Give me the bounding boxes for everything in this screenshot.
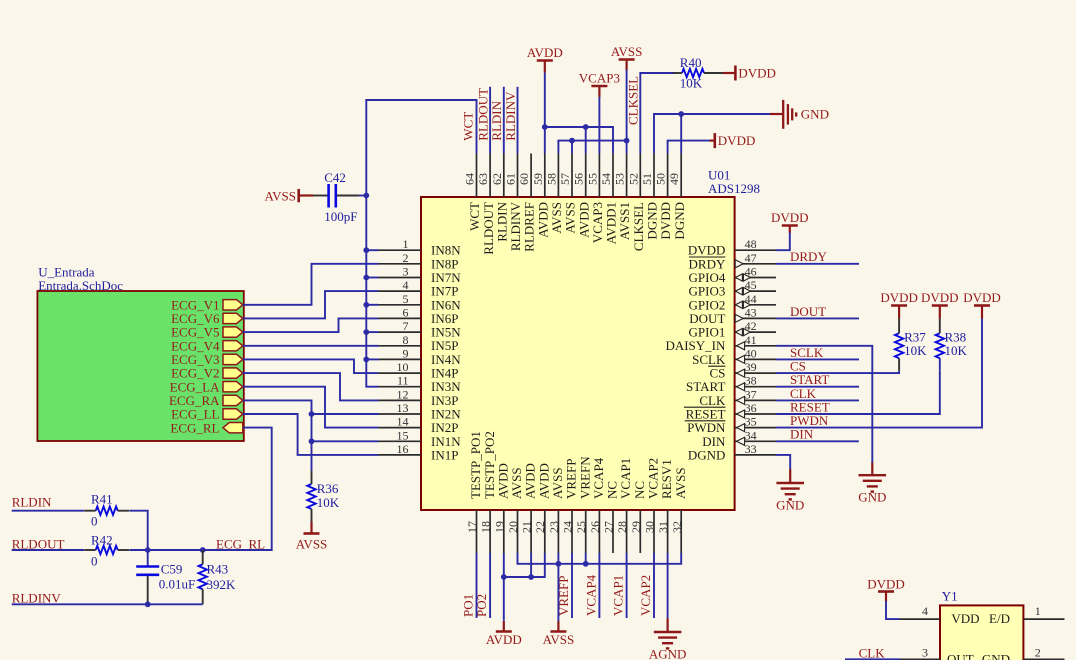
pin 38 (START) right stub — [735, 386, 776, 388]
power AVSS at C42 — [297, 189, 300, 202]
wire ECG_V5 to IN6P — [243, 318, 379, 332]
wire DAISY_IN to GND — [776, 346, 872, 463]
svg-text:GND: GND — [776, 498, 804, 513]
pin 63 (RLDOUT) top stub — [489, 154, 491, 198]
pin 37 input arrow — [737, 396, 745, 404]
resistor R36 — [307, 484, 315, 509]
capacitor C59 — [147, 550, 149, 566]
wire ECG_RA branch to IN1N — [312, 440, 379, 442]
power DVDD above PWDN drop — [974, 304, 990, 307]
svg-text:0: 0 — [91, 554, 98, 569]
svg-text:40: 40 — [745, 346, 757, 360]
sheet entry port ECG_V1 — [223, 300, 243, 310]
wire AVDD net pins 59/56/54 — [544, 73, 546, 154]
svg-text:DVDD: DVDD — [880, 290, 918, 305]
pin 57 (AVSS) top stub — [571, 154, 573, 198]
svg-text:RLDINV: RLDINV — [12, 590, 62, 605]
pin 35 input arrow — [737, 424, 745, 432]
svg-text:AVSS: AVSS — [611, 44, 643, 59]
svg-text:DIN: DIN — [790, 427, 814, 442]
wire WCT branch to pin 3 IN7N — [366, 277, 378, 279]
ground AGND — [666, 619, 668, 632]
pin 39 input arrow — [737, 369, 745, 377]
power VCAP3 — [591, 85, 607, 88]
svg-text:Entrada.SchDoc: Entrada.SchDoc — [38, 278, 123, 293]
wire ECG_LA to IN2P — [243, 387, 379, 428]
pin 39 (CS) right stub — [735, 372, 776, 374]
wire ECG_RA down to R36 — [243, 400, 312, 470]
pin 61 (RLDINV) top stub — [517, 154, 519, 198]
svg-text:36: 36 — [745, 401, 757, 415]
svg-text:47: 47 — [745, 251, 757, 265]
wire VCAP3 pin 55 — [598, 97, 600, 154]
wire PO1 pin 17 — [476, 553, 478, 618]
svg-text:DRDY: DRDY — [790, 249, 827, 264]
wire R41 to node — [130, 511, 148, 550]
svg-text:R42: R42 — [91, 532, 113, 547]
wire RLDINV — [12, 603, 203, 605]
svg-text:23: 23 — [547, 521, 561, 533]
pin 62 (RLDIN) top stub — [503, 154, 505, 198]
pin 43 output arrow — [735, 314, 743, 322]
pin 1 (E/D) stub — [1023, 618, 1064, 620]
pin 17 (TESTP_PO1) bottom stub — [476, 510, 478, 553]
pin 3 (OUT) stub — [900, 658, 940, 660]
wire PWDN to DVDD — [776, 318, 982, 427]
wire ECG_V6 to IN7P — [243, 291, 379, 318]
wire ECG_RA branch to IN2N — [312, 413, 379, 415]
pin 42 bidirectional arrows — [735, 329, 742, 336]
sheet entry port ECG_V4 — [223, 341, 243, 351]
pin 26 (VCAP4) bottom stub — [598, 510, 600, 553]
svg-text:5: 5 — [403, 292, 409, 306]
pin 5 (IN6N) left stub — [379, 304, 422, 306]
ground GND rotated right — [770, 113, 783, 115]
svg-text:55: 55 — [585, 173, 599, 185]
wire DVDD pin 50 — [668, 141, 710, 154]
svg-text:C42: C42 — [324, 170, 346, 185]
svg-text:6: 6 — [403, 305, 409, 319]
resistor R42 — [96, 546, 118, 554]
svg-text:27: 27 — [602, 521, 616, 533]
svg-text:10: 10 — [397, 360, 409, 374]
pin 31 (RESV1) bottom stub — [667, 510, 669, 553]
pin 34 (DIN) right stub — [735, 440, 776, 442]
pin 2 (IN8P) left stub — [379, 263, 422, 265]
power DVDD above R38 — [932, 304, 948, 307]
svg-text:21: 21 — [520, 521, 534, 533]
wire CS to R37 — [776, 371, 899, 373]
svg-text:57: 57 — [558, 173, 572, 185]
svg-text:24: 24 — [561, 521, 575, 533]
node ECG_RA junction pin 15 — [309, 438, 315, 444]
pin 35 (PWDN) right stub — [735, 427, 776, 429]
svg-text:56: 56 — [572, 173, 586, 185]
svg-text:43: 43 — [745, 305, 757, 319]
svg-text:31: 31 — [656, 521, 670, 533]
sheet entry port ECG_LA — [223, 382, 243, 392]
wire ECG_V4 to IN5P — [243, 345, 379, 347]
pin 36 (RESET) right stub — [735, 413, 776, 415]
svg-text:29: 29 — [629, 521, 643, 533]
svg-text:IN1P: IN1P — [431, 447, 458, 462]
svg-text:16: 16 — [397, 442, 409, 456]
svg-text:R40: R40 — [680, 55, 702, 70]
svg-text:OUT: OUT — [947, 651, 974, 660]
wire START — [776, 386, 859, 388]
svg-text:CLKSEL: CLKSEL — [626, 76, 641, 125]
pin 47 (DRDY) right stub — [735, 263, 776, 265]
svg-text:DVDD: DVDD — [718, 133, 756, 148]
wire VCAP4 pin 26 — [598, 553, 600, 618]
resistor R43 — [199, 564, 207, 589]
ground GND at pin 33 — [789, 469, 791, 482]
svg-text:14: 14 — [397, 415, 409, 429]
svg-text:32: 32 — [670, 521, 684, 533]
svg-text:18: 18 — [479, 521, 493, 533]
wire ECG_V2 to IN3P — [243, 373, 379, 400]
svg-text:3: 3 — [922, 646, 928, 660]
wire DGND pins 51/49 to GND — [654, 114, 770, 154]
wire RLDIN from pin 62 — [503, 87, 505, 154]
wire RESV1 pin 31 to AGND — [667, 553, 669, 619]
sheet entry port ECG_V2 — [223, 368, 243, 378]
svg-text:34: 34 — [745, 428, 757, 442]
pin 41 input arrow — [737, 342, 745, 350]
svg-text:0: 0 — [91, 514, 98, 529]
svg-text:ADS1298: ADS1298 — [708, 181, 760, 196]
svg-text:DGND: DGND — [688, 447, 726, 462]
wire CLK — [776, 399, 859, 401]
svg-text:392K: 392K — [207, 577, 237, 592]
power AVDD top — [537, 59, 553, 62]
pin 4 (VDD) stub — [900, 618, 941, 620]
svg-text:DGND: DGND — [672, 202, 687, 240]
svg-text:3: 3 — [403, 265, 409, 279]
wire RESET to R38 — [776, 371, 940, 414]
node AVSS junction pin 25 — [583, 561, 589, 567]
wire DIN — [776, 440, 859, 442]
sheet entry port ECG_V5 — [223, 327, 243, 337]
pin 46 (GPIO4) right stub — [735, 277, 776, 279]
wire ECG_LL to IN1P — [243, 414, 379, 455]
svg-text:VCAP3: VCAP3 — [579, 71, 620, 86]
wire RLDINV from pin 61 — [517, 87, 519, 154]
svg-text:4: 4 — [922, 604, 928, 618]
svg-text:58: 58 — [544, 173, 558, 185]
node AVDD junction pin 21 — [528, 574, 534, 580]
wire SCLK — [776, 358, 859, 360]
svg-text:22: 22 — [533, 521, 547, 533]
svg-text:1: 1 — [1035, 604, 1041, 618]
node junction C59 bottom — [145, 601, 151, 607]
wire WCT branch to pin 5 IN6N — [366, 304, 378, 306]
pin 18 (TESTP_PO2) bottom stub — [489, 510, 491, 553]
power AVDD bottom — [496, 630, 512, 633]
svg-text:13: 13 — [397, 401, 409, 415]
svg-text:10K: 10K — [945, 343, 968, 358]
svg-text:DVDD: DVDD — [867, 577, 905, 592]
node junction R43 top — [200, 547, 206, 553]
pin 44 bidirectional arrows — [735, 301, 742, 308]
svg-text:VCAP1: VCAP1 — [611, 575, 626, 616]
pin 64 (WCT) top stub — [476, 154, 478, 198]
svg-text:DVDD: DVDD — [738, 66, 776, 81]
svg-text:10K: 10K — [680, 76, 703, 91]
pin 10 (IN4P) left stub — [379, 372, 422, 374]
pin 40 (SCLK) right stub — [735, 358, 776, 360]
wire CLK to Y1 pin 3 — [845, 658, 900, 660]
node WCT junction at pin 9 — [363, 357, 369, 363]
svg-text:2: 2 — [403, 251, 409, 265]
wire ECG_V3 to IN4P — [243, 359, 379, 373]
pin 44 (GPIO2) right stub — [735, 304, 776, 306]
svg-text:64: 64 — [463, 173, 477, 185]
svg-text:25: 25 — [574, 521, 588, 533]
svg-text:DVDD: DVDD — [771, 210, 809, 225]
pin 7 (IN5N) left stub — [379, 331, 422, 333]
node ECG_RA junction pin 13 — [309, 411, 315, 417]
pin 41 (DAISY_IN) right stub — [735, 345, 776, 347]
power AVSS top — [619, 58, 635, 61]
pin 58 (AVSS) top stub — [557, 154, 559, 198]
sheet entry port ECG_RL — [223, 423, 243, 433]
pin 28 (VCAP1) bottom stub — [626, 510, 628, 553]
svg-text:2: 2 — [1035, 646, 1041, 660]
svg-text:53: 53 — [613, 173, 627, 185]
svg-text:PO2: PO2 — [474, 594, 489, 617]
svg-text:VCAP2: VCAP2 — [638, 575, 653, 616]
wire RLDOUT from pin 63 — [489, 87, 491, 154]
svg-text:Y1: Y1 — [942, 589, 958, 604]
node AVDD junction pin 56 — [583, 124, 589, 130]
svg-text:R43: R43 — [207, 561, 229, 576]
pin 37 (CLK) right stub — [735, 399, 776, 401]
svg-text:54: 54 — [599, 173, 613, 185]
pin 48 (DVDD) right stub — [735, 249, 776, 251]
pin 47 output arrow — [735, 260, 743, 268]
svg-text:49: 49 — [667, 173, 681, 185]
svg-text:26: 26 — [588, 521, 602, 533]
svg-text:GND: GND — [858, 490, 886, 505]
node AVSS junction pin 53 — [624, 138, 630, 144]
pin 43 (DOUT) right stub — [735, 317, 776, 319]
wire AVSS net pins 20/23/25/32 — [518, 553, 682, 564]
svg-text:28: 28 — [615, 521, 629, 533]
wire WCT branch to pin 9 IN4N — [366, 358, 378, 360]
wire ECG_RL down to RLD network — [203, 428, 272, 550]
svg-text:37: 37 — [745, 387, 757, 401]
svg-text:39: 39 — [745, 360, 757, 374]
pin 38 input arrow — [737, 383, 745, 391]
svg-text:R36: R36 — [317, 481, 339, 496]
svg-text:60: 60 — [517, 173, 531, 185]
pin 46 bidirectional arrows — [735, 274, 742, 281]
pin 36 input arrow — [737, 410, 745, 418]
node WCT/C42 junction — [363, 193, 369, 199]
svg-text:WCT: WCT — [461, 112, 476, 141]
svg-text:DVDD: DVDD — [963, 290, 1001, 305]
pin 15 (IN1N) left stub — [379, 440, 422, 442]
svg-text:VDD: VDD — [951, 611, 979, 626]
pin 12 (IN3P) left stub — [379, 399, 422, 401]
pin 56 (AVDD) top stub — [585, 154, 587, 198]
svg-text:51: 51 — [640, 173, 654, 185]
wire RLDIN to R41 — [12, 510, 84, 512]
svg-text:AVDD: AVDD — [486, 632, 522, 647]
wire WCT branch to pin 1 IN8N — [366, 249, 378, 251]
wire VCAP1 pin 28 — [626, 553, 628, 618]
power DVDD pin 50 — [713, 133, 716, 148]
svg-text:63: 63 — [476, 173, 490, 185]
svg-text:38: 38 — [745, 374, 757, 388]
pin 16 (IN1P) left stub — [379, 454, 422, 456]
pin 32 (AVSS) bottom stub — [680, 510, 682, 553]
pin 40 input arrow — [737, 355, 745, 363]
svg-text:GND: GND — [801, 107, 829, 122]
svg-text:10K: 10K — [317, 495, 340, 510]
wire VCAP2 pin 30 — [653, 553, 655, 618]
node DGND junction pin 49 — [678, 111, 684, 117]
pin 60 (RLDREF) top stub — [530, 154, 532, 198]
svg-text:0.01uF: 0.01uF — [159, 576, 195, 591]
pin 24 (VREFP) bottom stub — [571, 510, 573, 553]
IC U01 ADS1298 body — [421, 197, 735, 510]
sheet symbol U_Entrada — [37, 291, 243, 441]
svg-text:15: 15 — [397, 428, 409, 442]
pin 22 (AVDD) bottom stub — [544, 510, 546, 553]
node AVDD junction pin 19 — [501, 574, 507, 580]
resistor R38 — [936, 333, 944, 358]
wire CLKSEL pin 52 to R40 — [640, 73, 676, 154]
pin 34 input arrow — [737, 437, 745, 445]
pin 4 (IN7P) left stub — [379, 290, 422, 292]
node WCT junction at pin 7 — [363, 329, 369, 335]
pin 25 (VREFN) bottom stub — [585, 510, 587, 553]
sheet entry port ECG_RA — [223, 395, 243, 405]
wire AVDD net pins 19/21/22 — [503, 553, 505, 621]
pin 27 (NC) bottom stub — [612, 510, 614, 553]
pin 1 (IN8N) left stub — [379, 249, 422, 251]
pin 23 (AVSS) bottom stub — [557, 510, 559, 553]
svg-text:10K: 10K — [904, 343, 927, 358]
svg-text:12: 12 — [397, 387, 409, 401]
svg-text:8: 8 — [403, 333, 409, 347]
pin 54 (AVDD1) top stub — [612, 154, 614, 198]
svg-text:DOUT: DOUT — [790, 304, 826, 319]
wire DGND pin 33 to GND — [776, 455, 790, 469]
svg-text:4: 4 — [403, 278, 409, 292]
node junction R41/R42/C59 — [145, 547, 151, 553]
pin 30 (VCAP2) bottom stub — [653, 510, 655, 553]
svg-text:DVDD: DVDD — [921, 290, 959, 305]
pin 11 (IN3N) left stub — [379, 386, 422, 388]
svg-text:AVSS: AVSS — [673, 467, 688, 499]
wire WCT branch to pin 7 IN5N — [366, 331, 378, 333]
svg-text:52: 52 — [626, 173, 640, 185]
sheet entry port ECG_V6 — [223, 313, 243, 323]
svg-text:C59: C59 — [161, 561, 183, 576]
resistor R41 — [96, 507, 118, 515]
wire R42 node to ECG_RL riser — [130, 549, 272, 551]
node WCT junction at pin 5 — [363, 302, 369, 308]
wire DRDY — [776, 263, 859, 265]
wire ECG_V1 to IN8P — [243, 264, 379, 305]
pin 3 (IN7N) left stub — [379, 277, 422, 279]
power AVSS bottom — [550, 630, 566, 633]
node AVDD junction pin 59 — [542, 124, 548, 130]
svg-text:AVSS: AVSS — [543, 632, 575, 647]
svg-text:17: 17 — [465, 521, 479, 533]
svg-text:35: 35 — [745, 415, 757, 429]
pin 19 (AVDD) bottom stub — [503, 510, 505, 553]
pin 6 (IN6P) left stub — [379, 317, 422, 319]
node WCT junction at pin 3 — [363, 275, 369, 281]
sheet entry port ECG_LL — [223, 409, 243, 419]
wire VREFP pin 24 — [571, 553, 573, 618]
pin 52 (CLKSEL) top stub — [639, 154, 641, 198]
svg-text:VREFP: VREFP — [556, 576, 571, 616]
node AVSS junction pin 23 — [556, 561, 562, 567]
svg-text:AVSS: AVSS — [264, 189, 296, 204]
pin 8 (IN5P) left stub — [379, 345, 422, 347]
wire DVDD to Y1 pin 4 — [886, 601, 900, 619]
pin 45 (GPIO3) right stub — [735, 290, 776, 292]
wire AVSS net pins 58/57/53 — [626, 70, 628, 154]
svg-text:20: 20 — [506, 521, 520, 533]
svg-text:9: 9 — [403, 346, 409, 360]
svg-text:RLDINV: RLDINV — [503, 91, 518, 141]
wire WCT horizontal from pin 64 — [366, 100, 476, 387]
svg-text:19: 19 — [492, 521, 506, 533]
pin 55 (VCAP3) top stub — [598, 154, 600, 198]
wire PO2 pin 18 — [489, 553, 491, 618]
power DVDD above R37 — [891, 304, 907, 307]
wire RLDOUT to R42 — [12, 549, 84, 551]
svg-text:62: 62 — [490, 173, 504, 185]
svg-text:AVDD: AVDD — [527, 45, 563, 60]
svg-text:R41: R41 — [91, 491, 113, 506]
svg-text:1: 1 — [403, 237, 409, 251]
pin 20 (AVSS) bottom stub — [517, 510, 519, 553]
svg-text:E/D: E/D — [989, 611, 1010, 626]
resistor R40 — [682, 69, 704, 77]
svg-text:CLK: CLK — [859, 645, 886, 660]
capacitor C42 — [313, 195, 328, 197]
ground GND at DAISY_IN — [871, 463, 873, 475]
svg-text:7: 7 — [403, 319, 409, 333]
node AVSS junction pin 57 — [569, 138, 575, 144]
pin 14 (IN2P) left stub — [379, 427, 422, 429]
pin 13 (IN2N) left stub — [379, 413, 422, 415]
pin 49 (DGND) top stub — [680, 154, 682, 198]
pin 21 (AVDD) bottom stub — [530, 510, 532, 553]
power AVSS under R36 — [310, 522, 312, 534]
svg-text:AGND: AGND — [649, 647, 687, 660]
pin 59 (AVDD) top stub — [544, 154, 546, 198]
wire DVDD pin 48 — [776, 232, 790, 250]
wire C42 to WCT node — [359, 195, 366, 197]
pin 50 (DVDD) top stub — [667, 154, 669, 198]
svg-text:48: 48 — [745, 237, 757, 251]
svg-text:50: 50 — [654, 173, 668, 185]
pin 51 (DGND) top stub — [653, 154, 655, 198]
oscillator Y1 body — [940, 605, 1023, 660]
svg-text:61: 61 — [504, 173, 518, 185]
power DVDD right of R40 — [734, 66, 737, 81]
svg-text:ECG_RL: ECG_RL — [170, 420, 219, 435]
pin 53 (AVSS1) top stub — [626, 154, 628, 198]
